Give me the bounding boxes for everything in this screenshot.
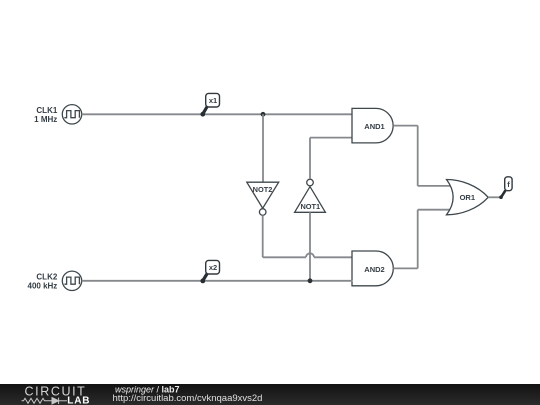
or gate OR1	[447, 180, 489, 215]
wire CLK1 to junction	[82, 113, 263, 115]
wire AND1 output	[393, 125, 418, 127]
node flag x1	[200, 93, 219, 116]
wire hop over NOT1 input	[306, 253, 314, 257]
and gate AND2	[352, 251, 393, 286]
svg-text:NOT2: NOT2	[253, 185, 273, 194]
wire NOT1 output to AND1 input B	[310, 137, 353, 139]
junction node top	[261, 112, 266, 117]
svg-text:http://circuitlab.com/cvknqaa9: http://circuitlab.com/cvknqaa9xvs2d	[113, 393, 263, 404]
wire CLK2 to junction	[82, 280, 310, 282]
wire AND1 output down	[417, 126, 419, 186]
footer bar	[0, 384, 540, 405]
clock source CLK1	[62, 105, 81, 124]
svg-text:OR1: OR1	[460, 193, 475, 202]
wire NOT2 output to hop	[263, 256, 306, 258]
node flag f	[499, 177, 512, 199]
svg-text:x2: x2	[209, 263, 217, 272]
svg-text:LAB: LAB	[67, 396, 90, 405]
svg-text:CLK2: CLK2	[36, 273, 57, 282]
wire to OR1 input A	[418, 185, 451, 187]
svg-text:400 kHz: 400 kHz	[28, 282, 58, 291]
CircuitLab logo resistor-diode symbol	[22, 398, 68, 404]
svg-text:x1: x1	[209, 96, 217, 105]
wire junction down to NOT2 input	[262, 114, 264, 182]
svg-text:1 MHz: 1 MHz	[34, 115, 57, 124]
wire NOT1 input down to bottom net	[309, 212, 311, 281]
and gate AND1	[352, 108, 393, 142]
svg-text:AND2: AND2	[364, 265, 384, 274]
wire junction to AND1 input A	[263, 113, 353, 115]
svg-text:AND1: AND1	[364, 122, 384, 131]
junction node bottom	[308, 278, 313, 283]
clock source CLK2	[62, 271, 81, 290]
wire AND2 output up	[417, 210, 419, 269]
wire NOT2 output down	[262, 215, 264, 257]
inverter NOT2	[247, 182, 279, 215]
wire OR1 output	[488, 196, 501, 198]
node flag x2	[200, 260, 219, 283]
wire hop to AND2 input A	[314, 256, 353, 258]
svg-text:CLK1: CLK1	[36, 106, 57, 115]
wire NOT1 output up	[309, 138, 311, 180]
wire AND2 output	[393, 267, 417, 269]
wire to OR1 input B	[418, 209, 450, 211]
wire junction to AND2 input B	[310, 280, 353, 282]
inverter NOT1	[295, 179, 326, 212]
svg-text:NOT1: NOT1	[300, 202, 320, 211]
